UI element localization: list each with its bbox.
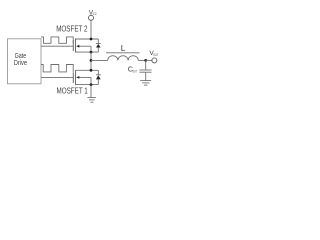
label: MOSFET 1 xyxy=(57,86,88,96)
label: L xyxy=(121,43,126,53)
svg-text:OUT: OUT xyxy=(132,69,137,74)
wire: inductor to output node xyxy=(138,59,145,61)
wire: output node to Vout terminal xyxy=(146,59,152,61)
capacitor Cout xyxy=(139,70,151,81)
transistor MOSFET 2 xyxy=(73,39,98,53)
label: Vout xyxy=(149,50,158,57)
top PWM waveform xyxy=(41,37,73,43)
node: MOSFET 1 drain junction xyxy=(90,69,93,72)
wire: MOSFET 1 source to ground xyxy=(90,85,92,98)
node: Vcc to drain junction xyxy=(90,38,93,41)
wire: switch node to inductor xyxy=(91,59,108,61)
node: MOSFET 1 source junction xyxy=(90,83,93,86)
svg-text:CC: CC xyxy=(93,11,97,16)
svg-text:OUT: OUT xyxy=(153,52,158,57)
ground under MOSFET 1 xyxy=(87,98,96,103)
Vcc supply terminal xyxy=(89,15,94,39)
wire: output node to capacitor xyxy=(145,60,147,70)
svg-text:L: L xyxy=(121,43,126,53)
body diode of MOSFET 1 xyxy=(96,70,101,84)
ground under capacitor xyxy=(140,81,151,86)
label: MOSFET 2 xyxy=(56,24,87,34)
node: output junction xyxy=(144,59,147,62)
node: MOSFET 2 source junction xyxy=(90,51,93,54)
gate drive block xyxy=(8,39,42,84)
node: switch node to inductor xyxy=(90,59,93,62)
svg-text:MOSFET 1: MOSFET 1 xyxy=(57,86,88,96)
transistor MOSFET 1 xyxy=(73,70,98,85)
label: Vcc xyxy=(89,9,97,16)
wire: switch node bus xyxy=(90,52,92,70)
inductor L xyxy=(106,53,140,61)
body diode of MOSFET 2 xyxy=(96,39,101,52)
label: Gate Drive xyxy=(14,51,27,67)
bottom PWM waveform xyxy=(41,65,73,72)
svg-text:MOSFET 2: MOSFET 2 xyxy=(56,24,87,34)
wire: top gate wire to MOSFET 2 xyxy=(41,45,73,47)
Vout terminal xyxy=(152,58,157,63)
svg-text:Drive: Drive xyxy=(14,58,27,67)
label: Cout xyxy=(128,64,137,73)
wire: bottom gate wire to MOSFET 1 xyxy=(41,76,73,78)
